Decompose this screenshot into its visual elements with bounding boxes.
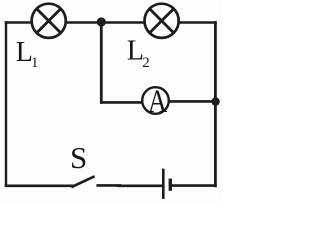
svg-text:S: S bbox=[70, 140, 87, 175]
svg-text:1: 1 bbox=[31, 55, 38, 71]
svg-text:2: 2 bbox=[142, 55, 149, 71]
svg-text:A: A bbox=[148, 84, 168, 120]
